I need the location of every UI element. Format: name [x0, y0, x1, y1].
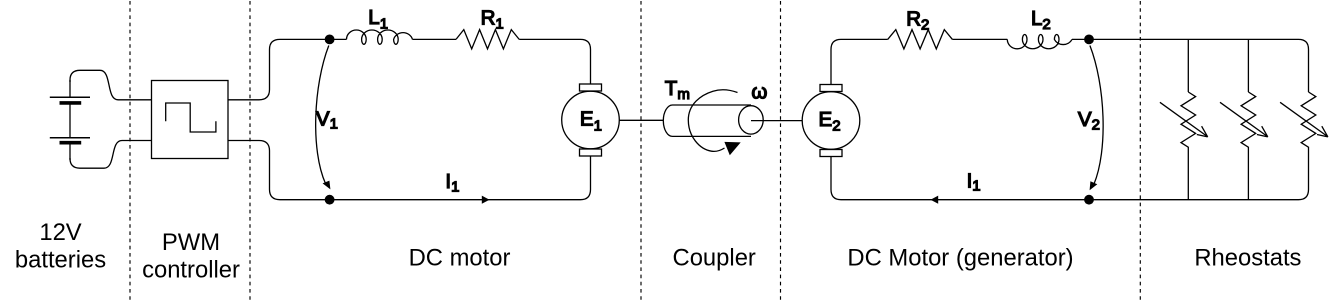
svg-text:E2: E2 [819, 108, 841, 135]
svg-text:L2: L2 [1031, 7, 1051, 33]
wire coupler shaft to E2 [751, 120, 802, 122]
wire E1 shaft to coupler [619, 119, 663, 121]
svg-text:I1: I1 [445, 170, 459, 195]
node A (motor top junction) [325, 35, 335, 45]
section separator dashed line 1 [129, 1, 131, 302]
motor E1 bottom brush [580, 149, 602, 156]
rheostat RH1 zigzag [1181, 92, 1196, 150]
wire E2 top to R2 [831, 39, 888, 84]
svg-text:R2: R2 [906, 7, 929, 33]
svg-text:PWM: PWM [162, 229, 220, 256]
inductor L2 (arcs below line) [1007, 34, 1072, 48]
svg-text:controller: controller [142, 256, 240, 283]
wire PWM output bottom to DC motor bottom rail [228, 141, 330, 200]
svg-text:E1: E1 [580, 108, 602, 135]
svg-text:V2: V2 [1078, 108, 1100, 133]
node B (motor bottom junction) [325, 195, 335, 205]
svg-text:I1: I1 [967, 169, 981, 194]
rheostat top rail [1089, 39, 1309, 92]
coupler cylinder body [663, 105, 751, 136]
current arrow I1 (generator side, pointing left) [931, 196, 939, 204]
generator E2 top brush [820, 85, 842, 92]
svg-text:DC motor: DC motor [409, 245, 511, 272]
generator E2 bottom brush [820, 150, 842, 157]
wire L1 to R1 [413, 38, 457, 40]
motor E1 top brush [580, 84, 602, 91]
battery B1 cell 1 short thick plate [60, 101, 82, 105]
node D (generator bottom junction) [1084, 195, 1094, 205]
svg-text:Rheostats: Rheostats [1194, 245, 1301, 272]
rheostat RH3 arrow [1280, 102, 1328, 137]
svg-text:ω: ω [751, 80, 767, 103]
resistor R2 [888, 30, 953, 49]
node C (generator top junction) [1084, 35, 1094, 45]
wire battery internal vertical segments [69, 80, 71, 160]
coupler rotation arrow arc [688, 90, 737, 152]
inductor L1 [347, 30, 413, 44]
wire E1 bottom to bottom rail [330, 156, 591, 200]
svg-text:12V: 12V [39, 219, 81, 246]
wire R2 to L2 [952, 38, 1007, 40]
battery B1 cell 2 short thick plate [60, 141, 82, 145]
svg-text:Tm: Tm [665, 77, 690, 103]
V2 measurement arrow [1090, 46, 1103, 185]
generator E2 body [802, 92, 860, 150]
wire E2 bottom to bottom rail to node D [831, 157, 1089, 200]
section separator dashed line 3 [640, 1, 642, 302]
current arrow I1 (motor side) [482, 196, 490, 204]
wire L2 to node C [1072, 38, 1089, 40]
rheostat RH1 branch wires [1187, 39, 1189, 199]
wire battery negative to PWM input (bottom S-curve) [70, 141, 152, 169]
V1 measurement arrow [316, 46, 329, 184]
svg-text:V1: V1 [316, 107, 338, 132]
rheostat RH3 zigzag [1301, 92, 1316, 150]
rheostat bottom rail [1089, 150, 1309, 200]
motor E1 body [562, 91, 620, 149]
battery B1 cell 1 long plate [50, 96, 90, 98]
coupler rotation arrowhead [724, 142, 740, 155]
rheostat RH2 branch wires [1247, 39, 1249, 199]
rheostat RH2 arrow [1220, 102, 1268, 137]
rheostat RH2 zigzag [1241, 92, 1256, 150]
svg-text:batteries: batteries [15, 247, 106, 274]
rheostat RH1 arrow [1160, 102, 1208, 137]
section separator dashed line 2 [249, 1, 251, 302]
PWM square-wave symbol [166, 103, 216, 132]
resistor R1 [456, 30, 519, 49]
svg-text:Coupler: Coupler [673, 245, 756, 272]
section separator dashed line 4 [780, 1, 782, 302]
wire R1 to E1 top [519, 39, 590, 84]
wire PWM output top to DC motor top rail [228, 39, 347, 99]
wire battery positive to PWM input (top S-curve) [70, 70, 152, 100]
battery B1 cell 2 long plate [50, 137, 90, 139]
svg-text:R1: R1 [481, 6, 504, 32]
coupler right face ellipse [739, 106, 764, 134]
section separator dashed line 5 [1139, 1, 1141, 302]
svg-text:L1: L1 [368, 6, 388, 32]
PWM controller box U1 [152, 81, 229, 159]
svg-text:DC Motor (generator): DC Motor (generator) [847, 245, 1073, 272]
